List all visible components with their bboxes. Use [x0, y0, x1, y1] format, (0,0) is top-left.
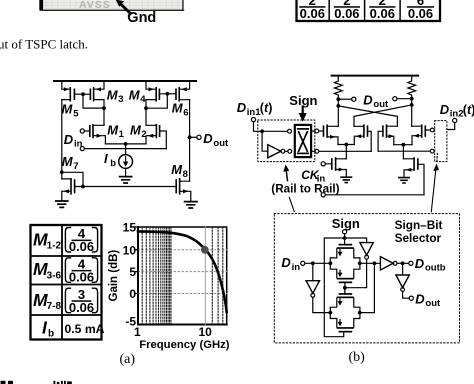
label Sign-Bit Selector [395, 218, 443, 245]
label D_in selector [281, 255, 300, 273]
ground T6 [399, 178, 409, 183]
table cell 6/0.06 col4 [407, 0, 434, 21]
svg-text:Sign–Bit: Sign–Bit [395, 218, 443, 232]
svg-text:M: M [107, 87, 119, 102]
top-right table W/L [297, 0, 441, 21]
gate wire T3 to Din2 box [378, 150, 430, 152]
svg-text:in2: in2 [450, 109, 464, 120]
transistor T2 mux pair [354, 124, 371, 151]
label D_outb [415, 256, 446, 274]
Gnd arrow [116, 0, 131, 14]
svg-text:0: 0 [129, 287, 136, 301]
D_out selector terminal [409, 296, 413, 300]
inverter INV5 [396, 263, 409, 298]
svg-text:M: M [107, 122, 119, 137]
sign-bit selector dotted box [274, 214, 459, 343]
node R2 out [410, 97, 414, 126]
svg-text:D: D [237, 100, 247, 115]
svg-text:M: M [130, 122, 142, 137]
svg-text:0.06: 0.06 [69, 300, 94, 315]
svg-text:D: D [281, 255, 291, 270]
ground Ib [120, 177, 132, 183]
wire M5 drain to M7 [60, 100, 85, 189]
svg-text:D: D [203, 131, 213, 146]
transmission gate TG2 [330, 293, 360, 332]
Sign down arrow [299, 107, 307, 122]
ground M7 [56, 201, 68, 207]
CK_in upper terminal [321, 162, 325, 166]
svg-text:D: D [415, 256, 425, 271]
svg-text:Sign: Sign [332, 216, 360, 231]
svg-text:out: out [373, 99, 389, 110]
left selector dotted box [258, 120, 315, 162]
D_in selector terminal [301, 261, 331, 265]
D_out node circuit a [188, 135, 201, 139]
table cell 2/0.06 col1 [299, 0, 325, 21]
node Din1 split [260, 129, 268, 151]
svg-text:Gnd: Gnd [127, 10, 156, 26]
svg-text:5: 5 [73, 108, 79, 119]
VDD rail circuit a [54, 80, 196, 82]
svg-text:1: 1 [134, 325, 141, 339]
svg-text:D: D [440, 102, 450, 117]
inverter INV4 output [380, 257, 408, 270]
label M3 [107, 87, 124, 105]
plot minor log gridlines [142, 227, 223, 325]
common source right pair [394, 143, 412, 159]
svg-text:7-8: 7-8 [47, 301, 62, 312]
svg-text:b: b [48, 328, 54, 339]
label D_in2(t) [440, 102, 474, 120]
transistor M5 (PMOS diode left) [62, 81, 83, 102]
svg-text:3-6: 3-6 [47, 270, 62, 281]
pointer arrow to right box [431, 154, 439, 212]
label M8 [171, 162, 188, 180]
TG2 top gate tie [344, 288, 346, 293]
svg-text:0.5 mA: 0.5 mA [65, 322, 105, 336]
svg-text:0.06: 0.06 [69, 239, 94, 254]
transistor M7 (NMOS diode mirrored) [62, 178, 83, 201]
transistor M1 (NMOS) [89, 124, 105, 144]
table row M3-6 value (4/0.06) [65, 257, 97, 285]
svg-text:): ) [268, 101, 272, 115]
sign switch X box [288, 125, 319, 157]
svg-text:AVSS: AVSS [79, 0, 111, 11]
inverted sign wire to TG gates [343, 259, 367, 293]
gain plot frame [138, 227, 227, 325]
transistor T3 mux pair [378, 124, 397, 151]
table row M3-6 label [33, 259, 61, 281]
gate wire M7-M8 [83, 186, 175, 188]
svg-text:M: M [172, 101, 184, 116]
CK_in lower terminal and wire [321, 193, 424, 197]
node M4 drain junction [144, 106, 148, 110]
inverter INV1 [268, 145, 288, 158]
svg-text:5: 5 [129, 265, 136, 279]
wire sign to INV2 [345, 238, 367, 243]
transistor M3 (PMOS) [83, 81, 104, 108]
svg-text:I: I [104, 151, 108, 166]
table row M1-2 label [33, 229, 61, 251]
svg-text:Gain (dB): Gain (dB) [108, 250, 120, 302]
D_in2 terminal [447, 118, 457, 129]
label D_in1(t) [237, 100, 273, 118]
svg-text:0.06: 0.06 [300, 6, 325, 21]
node M3 drain junction [102, 106, 106, 125]
table row M7-8 value (3/0.06) [65, 287, 97, 315]
node M4-M6 gate junction [165, 92, 175, 96]
transistor M2 (NMOS mirrored) [146, 108, 166, 148]
svg-text:Frequency (GHz): Frequency (GHz) [139, 339, 230, 351]
label Ib [104, 151, 116, 169]
label CK_in [301, 168, 325, 185]
svg-text:D: D [415, 291, 425, 306]
svg-text:0.06: 0.06 [370, 6, 395, 21]
node sign split [343, 236, 347, 240]
svg-text:M: M [62, 154, 74, 169]
label M7 [62, 154, 79, 172]
svg-text:ut of TSPC latch.: ut of TSPC latch. [0, 36, 88, 51]
table row Ib label [42, 318, 54, 340]
sign bypass wire to TG2 bottom gate [324, 238, 344, 337]
svg-text:6: 6 [183, 107, 188, 118]
Sign terminal selector [343, 230, 347, 244]
label D_out a [203, 131, 229, 149]
table cell 2/0.06 col2 [334, 0, 360, 21]
label M1 [107, 122, 124, 140]
resistor R2 [408, 76, 416, 99]
svg-text:0.06: 0.06 [69, 270, 94, 285]
bottom clipped caption fragments [1, 381, 72, 384]
transistor T6 clock [403, 157, 424, 195]
TG2 arm nodes [329, 311, 362, 315]
cross-couple wire right-to-left [354, 105, 412, 126]
svg-text:4: 4 [140, 94, 146, 105]
svg-text:3: 3 [118, 94, 123, 105]
D_in1 terminal [251, 118, 260, 132]
svg-text:(b): (b) [349, 350, 366, 365]
transistor M6 (PMOS) [175, 81, 189, 181]
transistor M8 (NMOS) [175, 178, 190, 201]
D_outb terminal [409, 261, 413, 265]
VDD rail circuit b [332, 75, 419, 77]
pointer arrow to left box [283, 164, 294, 211]
svg-text:out: out [213, 138, 229, 149]
label M4 [129, 87, 146, 105]
svg-text:M: M [129, 87, 141, 102]
transistor T1 mux pair [319, 124, 339, 144]
D_in input terminals [80, 129, 166, 151]
svg-text:(Rail to Rail): (Rail to Rail) [271, 182, 339, 195]
svg-text:in: in [292, 262, 301, 273]
svg-text:M: M [62, 102, 74, 117]
wire to xbox top input [262, 130, 287, 132]
output node wire [360, 261, 381, 312]
svg-text:out: out [425, 298, 441, 309]
common source left pair [338, 143, 354, 159]
svg-text:10: 10 [199, 325, 213, 339]
svg-text:in: in [74, 139, 83, 150]
die photo remnant [39, 0, 183, 11]
node outb split [401, 261, 405, 265]
cross-couple wire left-to-right [338, 106, 397, 126]
TG1 arm nodes [329, 261, 362, 265]
svg-text:M: M [171, 162, 183, 177]
label D_out b [363, 92, 389, 110]
svg-text:7: 7 [73, 161, 78, 172]
x axis labels [134, 325, 212, 339]
svg-text:Selector: Selector [395, 231, 442, 245]
ground M8 [185, 202, 197, 208]
svg-text:(a): (a) [120, 352, 136, 367]
svg-text:D: D [64, 132, 74, 147]
label M6 [172, 101, 189, 119]
right box output bubbles [430, 128, 434, 153]
svg-text:D: D [363, 92, 373, 107]
table cell 2/0.06 col3 [369, 0, 395, 21]
table row M7-8 label [33, 290, 61, 312]
gain curve [138, 231, 227, 312]
node gates M5-M3 (diode tie) [81, 92, 104, 108]
label M2 [130, 122, 147, 140]
curve marker dot [201, 246, 209, 254]
transistor T5 clock [325, 157, 346, 176]
svg-text:outb: outb [425, 263, 446, 274]
svg-text:0.06: 0.06 [408, 6, 433, 21]
label D_out selector [415, 291, 441, 309]
D_out terminals b [338, 97, 411, 102]
device size table a [31, 225, 102, 340]
node R1 out [336, 97, 340, 126]
plot x gridline 10GHz [204, 227, 206, 325]
gate wire T2 to selector [319, 150, 371, 152]
y axis labels [123, 221, 137, 329]
right selector dotted box [435, 121, 447, 162]
resistor R1 [334, 76, 342, 100]
current source Ib [119, 144, 133, 176]
transistor T4 mux pair [412, 124, 431, 144]
svg-text:1-2: 1-2 [47, 241, 62, 252]
inverter INV2 sign [360, 243, 373, 260]
common source wire M1-M2 [105, 142, 146, 146]
plot axis ticks [136, 227, 138, 294]
label D_in [64, 132, 83, 150]
svg-text:8: 8 [183, 169, 188, 180]
plot y gridlines [138, 250, 227, 294]
transistor M4 (PMOS diode) [146, 81, 167, 108]
svg-text:2: 2 [141, 129, 146, 140]
inverter INV3 din [306, 263, 328, 312]
svg-text:1: 1 [119, 129, 125, 140]
svg-text:b: b [110, 158, 116, 169]
svg-text:15: 15 [123, 221, 137, 235]
table row M1-2 value (4/0.06) [65, 226, 97, 254]
svg-text:0.06: 0.06 [334, 6, 359, 21]
label M5 [62, 102, 80, 120]
ground T5 [341, 177, 351, 182]
svg-text:10: 10 [123, 243, 137, 257]
transmission gate TG1 [330, 244, 360, 283]
